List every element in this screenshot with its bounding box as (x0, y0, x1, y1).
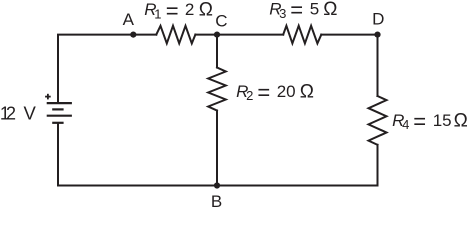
wire bottom-left from bottom wire up to battery bottom (57, 124, 59, 186)
battery V1 long plate 3 (47, 115, 72, 117)
wire R3 to node D (321, 34, 377, 36)
battery V1 short plate 4 (negative) (52, 122, 63, 124)
battery V1 positive plate (top long) (47, 102, 72, 104)
svg-text:R1=2Ω: R1=2Ω (144, 0, 213, 23)
bottom wire (through node B) (58, 185, 378, 187)
wire R2 to bottom wire (216, 111, 218, 186)
resistor R1 (156, 26, 195, 44)
svg-text:A: A (123, 10, 135, 29)
wire R1 to R3 (through node C) (195, 34, 283, 36)
svg-text:C: C (215, 11, 227, 30)
svg-text:12V: 12V (0, 103, 36, 124)
node D (junction dot) (374, 31, 380, 37)
wire node D down to R4 (377, 35, 379, 96)
wire top-left from battery top to R1 (through node A) (58, 35, 156, 102)
node A (junction dot) (130, 31, 136, 37)
resistor R2 (208, 68, 226, 111)
svg-text:R2=20Ω: R2=20Ω (236, 80, 314, 105)
resistor R4 (369, 96, 387, 145)
wire node C down to R2 (216, 35, 218, 68)
node B (junction dot) (214, 182, 220, 188)
resistor R3 (283, 26, 321, 44)
svg-text:B: B (211, 192, 222, 211)
wire R4 to bottom wire (377, 145, 379, 186)
battery plus sign (45, 94, 51, 100)
node C (junction dot) (214, 31, 220, 37)
svg-text:D: D (372, 10, 384, 29)
battery V1 short plate 2 (52, 108, 63, 110)
svg-text:R3=5Ω: R3=5Ω (269, 0, 337, 23)
svg-text:R4=15Ω: R4=15Ω (392, 109, 468, 134)
